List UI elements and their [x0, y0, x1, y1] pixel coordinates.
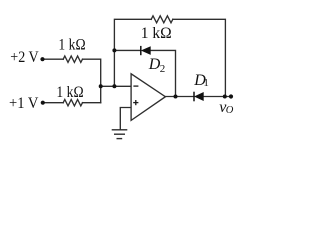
- resistor R1 1 kOhm (+2V) zigzag: [63, 56, 82, 62]
- wire D2 branch right and down to op-amp output: [151, 50, 176, 96]
- svg-text:1 kΩ: 1 kΩ: [58, 36, 85, 53]
- resistor R3 1 kOhm feedback zigzag: [151, 16, 173, 23]
- node: summing junction dot A: [99, 84, 103, 88]
- svg-text:+2 V: +2 V: [10, 49, 39, 66]
- node: feedback/vO junction dot: [223, 95, 227, 99]
- node: op-amp output junction dot: [174, 95, 178, 99]
- ground: [112, 130, 128, 139]
- op-amp U1: [131, 74, 165, 121]
- node: +2V terminal dot: [40, 57, 44, 61]
- svg-text:O: O: [226, 105, 234, 116]
- node: D2 branch junction dot: [112, 48, 116, 52]
- wire +1V input: [43, 102, 63, 104]
- svg-text:2: 2: [160, 63, 166, 75]
- resistor R2 1 kOhm (+1V) zigzag: [63, 100, 82, 106]
- wire +2V to inverting column: [83, 59, 101, 102]
- wire D2 branch horizontal left: [114, 49, 140, 51]
- diode D2: [141, 46, 151, 55]
- svg-text:1 kΩ: 1 kΩ: [56, 84, 83, 101]
- wire +2V input: [43, 58, 64, 60]
- svg-text:+1 V: +1 V: [9, 95, 39, 112]
- node: +1V terminal dot: [41, 101, 45, 105]
- node: vO terminal dot: [229, 94, 233, 98]
- node: inverting input junction dot B: [112, 84, 116, 88]
- svg-text:1 kΩ: 1 kΩ: [141, 25, 172, 42]
- wire inverting input line: [101, 85, 131, 87]
- diode D1: [194, 92, 204, 102]
- wire top feedback left column: [114, 19, 151, 86]
- wire top feedback right segment: [173, 19, 226, 96]
- wire +1V to inverting column: [83, 102, 101, 104]
- wire output to vO terminal: [204, 96, 231, 98]
- wire op-amp output: [165, 96, 194, 98]
- wire non-inverting stub: [120, 108, 131, 130]
- svg-text:1: 1: [203, 77, 209, 89]
